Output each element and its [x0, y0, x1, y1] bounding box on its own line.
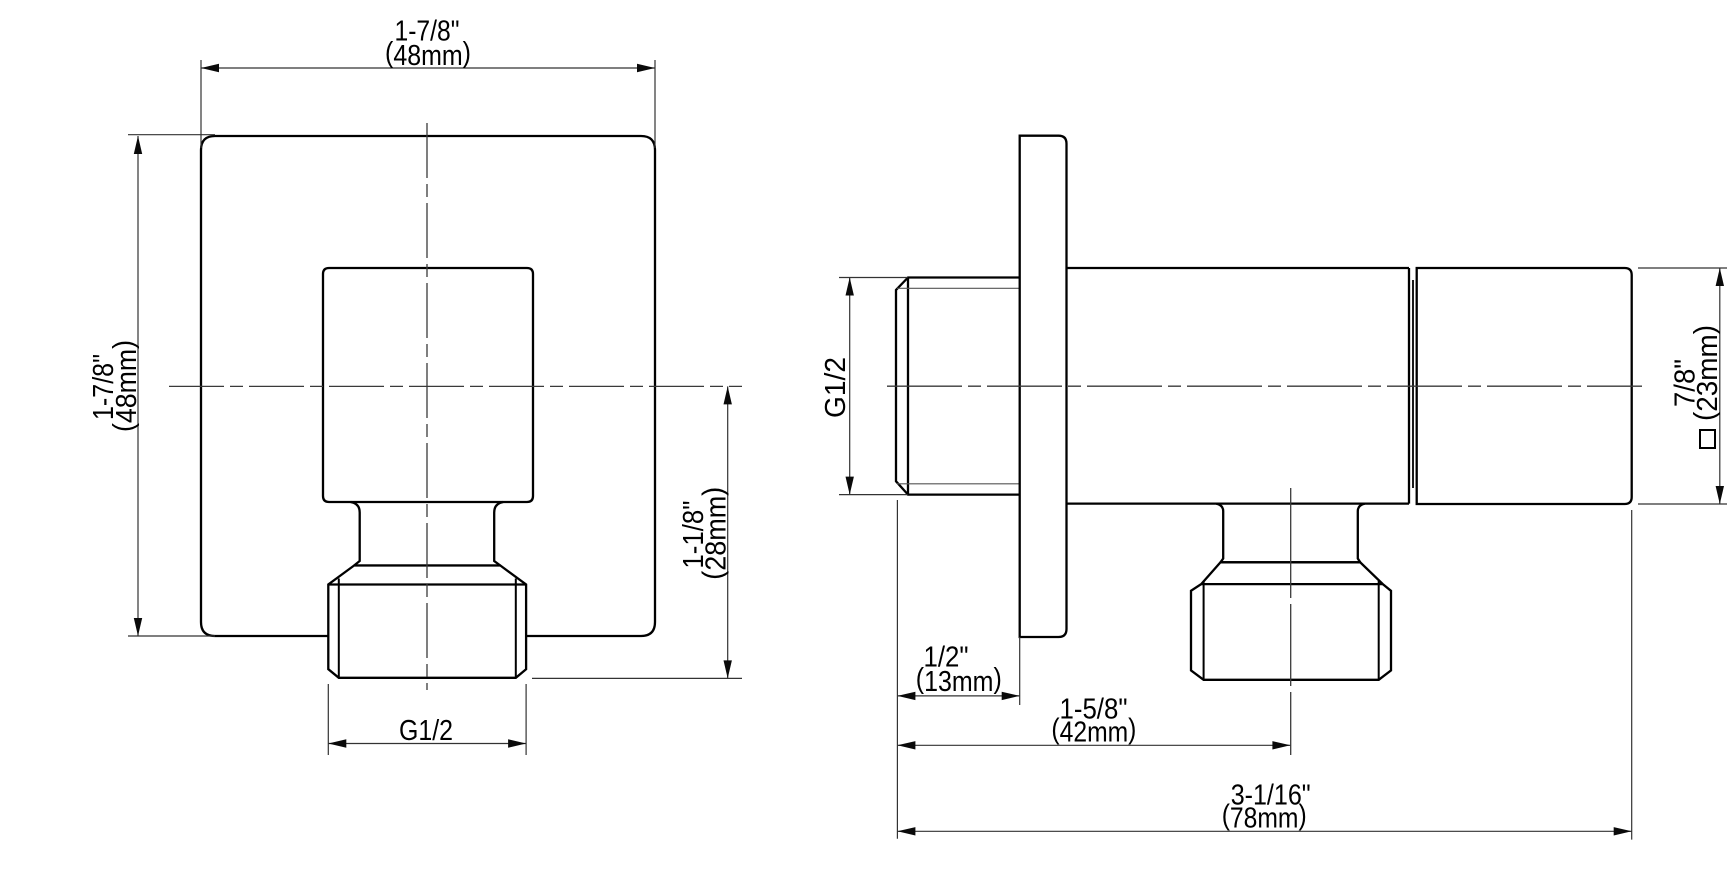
nut thread tangent lines	[339, 579, 516, 678]
wall flange	[1020, 136, 1067, 637]
dimension 1/2" (13mm)	[897, 500, 1019, 839]
square end cap	[1417, 268, 1632, 504]
outlet stem (side view)	[1216, 504, 1223, 563]
vertical centerline	[426, 123, 428, 690]
nut top edge	[328, 583, 526, 585]
dimension G1/2 bottom of front view	[328, 684, 526, 755]
svg-text:G1/2: G1/2	[399, 715, 453, 747]
hex nut (front view) white-filled to hide plate edge	[328, 566, 526, 678]
nut thread tangent lines	[1204, 581, 1379, 680]
nut top edge	[1201, 583, 1383, 585]
dimension 1-7/8" (48mm) top	[201, 60, 655, 148]
square-section symbol	[1700, 430, 1715, 448]
horizontal centerline	[169, 385, 742, 387]
horizontal centerline (side view)	[887, 385, 1642, 387]
thread start vertical line	[907, 278, 909, 495]
svg-text:(48mm): (48mm)	[108, 340, 143, 432]
svg-text:(42mm): (42mm)	[1051, 713, 1136, 748]
dimension 3-1/16" (78mm)	[897, 510, 1631, 840]
outlet centerline	[1290, 488, 1292, 755]
stem below boss with fillets	[351, 502, 360, 566]
stem shoulder line	[354, 564, 500, 566]
dimension 1-1/8" (28mm) right	[532, 386, 742, 678]
svg-text:(28mm): (28mm)	[698, 487, 733, 580]
svg-text:G1/2: G1/2	[820, 357, 852, 418]
valve body (horizontal cylinder)	[1067, 268, 1410, 504]
wall plate (rounded square)	[201, 136, 655, 636]
stem shoulder line	[1221, 561, 1361, 563]
threaded inlet pipe	[896, 278, 1020, 495]
svg-text:(48mm): (48mm)	[385, 37, 471, 72]
thread minor diameter lines	[897, 288, 1020, 484]
center boss (square)	[323, 268, 533, 502]
dimension 1-7/8" (48mm) left	[128, 135, 215, 636]
svg-text:(13mm): (13mm)	[916, 663, 1002, 698]
dimension 1-5/8" (42mm)	[897, 744, 1290, 746]
joint line	[1412, 280, 1414, 488]
dimension 7/8" (23mm) right	[1638, 268, 1727, 504]
svg-text:(78mm): (78mm)	[1222, 799, 1307, 834]
hex nut (side view)	[1191, 562, 1391, 680]
svg-text:(23mm): (23mm)	[1689, 325, 1724, 421]
dimension G1/2 (side view, left)	[839, 278, 908, 495]
